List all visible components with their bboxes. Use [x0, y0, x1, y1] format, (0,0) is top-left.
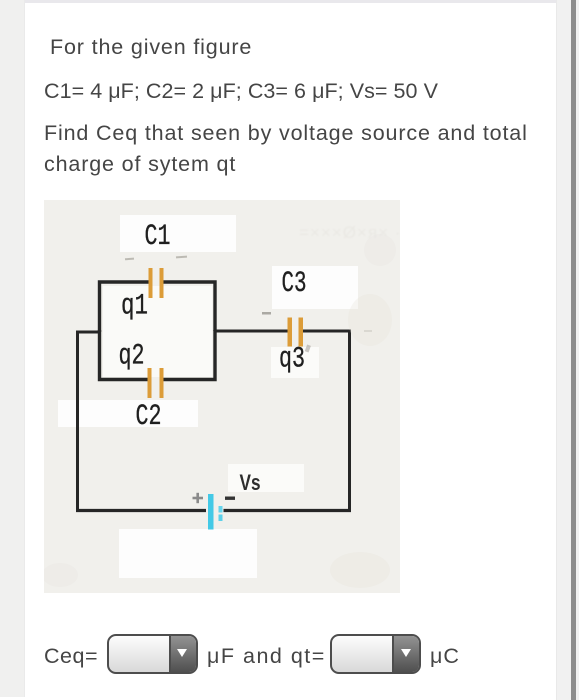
white patch below battery	[119, 529, 257, 578]
noise dash left of C3	[262, 312, 271, 315]
wire: inner loop top-left segment	[100, 282, 149, 332]
dropdown 1	[107, 634, 198, 674]
right scrollbar thumb	[571, 0, 576, 700]
white patch behind q3	[271, 347, 319, 378]
capacitor C1	[149, 268, 164, 298]
dropdown 2	[330, 634, 421, 674]
faint watermark noise top-right	[299, 223, 408, 242]
svg-text:q1: q1	[121, 290, 148, 324]
white patch left of C2 label	[58, 400, 198, 427]
capacitor C2	[148, 368, 164, 398]
white patch behind C1 label	[120, 215, 236, 252]
white patch inside inner loop	[103, 286, 212, 377]
right scrollbar track	[556, 0, 579, 700]
noise dash above C1 left	[125, 258, 134, 261]
svg-text:C2: C2	[136, 400, 162, 434]
battery Vs long plate (+)	[208, 494, 214, 530]
faint smudges	[348, 294, 392, 346]
white patch behind C3 label	[272, 266, 358, 309]
wire: left branch horizontal	[78, 331, 100, 334]
svg-text:q2: q2	[119, 340, 145, 374]
wire: inner loop top-right segment	[164, 282, 216, 331]
wire: bottom right segment	[224, 509, 352, 512]
minus sign	[225, 497, 235, 500]
answer row	[44, 639, 98, 673]
circuit figure (scanned image recreation)	[44, 200, 400, 593]
battery Vs short plate (-)	[219, 506, 223, 513]
wire: right branch to C3	[215, 330, 288, 333]
noise dash right mid	[364, 330, 372, 332]
top hairline	[24, 0, 556, 3]
wire: inner loop bottom-left segment	[100, 330, 149, 380]
wire: C3 to right outer vertical	[303, 331, 350, 511]
wire: bottom left segment	[76, 509, 206, 512]
question text	[50, 30, 252, 64]
plus sign	[193, 493, 204, 503]
wire: left outer vertical	[76, 331, 79, 511]
capacitor C3	[288, 318, 304, 347]
white patch behind Vs	[228, 464, 304, 492]
noise dash above C1 right	[176, 256, 187, 259]
wire: inner loop bottom-right segment	[164, 330, 216, 380]
svg-text:C3: C3	[282, 267, 307, 301]
svg-text:q3: q3	[279, 343, 305, 377]
noise dash right of q3	[305, 344, 311, 352]
svg-text:Vs: Vs	[240, 470, 261, 495]
left gutter	[0, 0, 25, 697]
svg-text:C1: C1	[145, 220, 171, 254]
